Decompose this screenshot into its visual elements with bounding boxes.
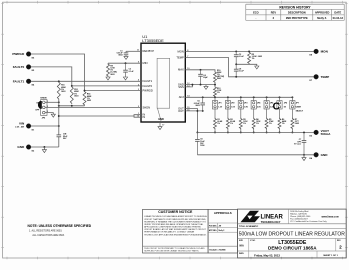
svg-text:0.1uF: 0.1uF [239,56,245,58]
resistor R5 1.00K on MON [248,51,262,64]
svg-text:1%: 1% [269,123,272,125]
wire VIN E1 to VIN column [31,125,59,127]
svg-text:ECO: ECO [253,11,259,15]
svg-text:CUSTOMER NOTICE: CUSTOMER NOTICE [158,210,193,214]
junction JP5 pin1 / VIN column [58,101,60,103]
svg-text:PWRGD: PWRGD [143,89,153,93]
terminal E6 PWRGD [12,52,35,60]
svg-text:FAULT0: FAULT0 [13,65,25,69]
svg-text:FAULT1: FAULT1 [143,79,153,83]
svg-text:IN: IN [143,115,146,119]
junction ADJ line / JP2 [227,96,229,98]
svg-text:IC NO.: IC NO. [250,240,256,242]
svg-text:PWRGD: PWRGD [12,52,25,56]
junction MON / C2 [235,50,237,52]
junction ADJ line / JP7 [291,96,293,98]
svg-text:OUT: OUT [178,109,184,113]
wire JP5 pin3 to ground [45,113,53,115]
svg-text:JP3: JP3 [244,103,247,105]
wire JP1 to resistor R1 [214,109,216,118]
ground symbol at JP5 OFF [51,114,55,117]
svg-text:1%: 1% [217,92,220,94]
terminal E2 GND input [17,145,35,153]
terminal E8 MON [309,49,328,56]
svg-text:DESCRIPTION: DESCRIPTION [288,11,306,15]
jumper JP3 1.8V output select [238,97,248,109]
wire JP2 to resistor R2 [227,109,229,118]
svg-text:CIRCUIT THAT MEETS CUSTOMER-SU: CIRCUIT THAT MEETS CUSTOMER-SUPPLIED SPE… [144,218,206,221]
resistor R3 121K divider [239,118,248,130]
svg-text:-: - [255,17,256,20]
capacitor C3 0.1uF [123,63,134,77]
svg-text:APPROVALS: APPROVALS [214,211,232,215]
terminal E1 VIN [15,122,35,132]
resistor R5 274K divider [265,118,274,130]
approvals box [208,209,237,253]
junction C4 bottom / SNS line [200,84,202,86]
resistor R10 909K (487.5K) upper divider [214,70,225,83]
svg-text:NOTE: UNLESS OTHERWISE SPECIFI: NOTE: UNLESS OTHERWISE SPECIFIED [28,224,92,228]
svg-text:'D' Case: 'D' Case [294,144,301,146]
U1 pin name labels [143,49,185,121]
svg-text:VERIFY PROPER AND RELIABLE OPE: VERIFY PROPER AND RELIABLE OPERATION IN … [144,223,204,226]
svg-text:0603: 0603 [110,74,114,76]
wire PWRGD E6 to U1 pin 3 [31,54,141,91]
capacitor C7 OPT D-case [294,132,306,154]
svg-text:1%: 1% [243,123,246,125]
svg-text:1%: 1% [256,123,259,125]
svg-text:1. ALL RESISTORS ARE 0603.: 1. ALL RESISTORS ARE 0603. [29,230,63,233]
svg-text:Milpitas, CA 95035: Milpitas, CA 95035 [290,213,308,216]
customer notice box [143,209,209,253]
jumper JP6 5V output select [277,97,287,109]
junction ADJ / C6 [202,96,204,98]
capacitor CIN 22uF 50V [57,134,69,140]
resistor R11 499K [57,81,66,100]
svg-text:TECHNOLOGY APPLICATIONS ENGINE: TECHNOLOGY APPLICATIONS ENGINEERING FOR … [144,233,207,236]
svg-text:0.1uF: 0.1uF [239,71,245,73]
junction OUT rail / R1 [214,131,216,133]
revision history table [246,4,344,20]
svg-text:REV: REV [271,11,277,15]
wire IN to U1 pins 1,16 [59,115,141,116]
junction VIN column / IN wire [58,115,60,117]
junction TEMP / C8 [235,76,237,78]
wire U1 MON pin 8 to MON terminal [185,50,313,52]
svg-text:VIN: VIN [19,122,25,126]
junction OUT rail / R5 [266,131,268,133]
junction ADJ line / JP3 [240,96,242,98]
svg-text:SELECT: SELECT [296,110,304,112]
svg-text:0603: 0603 [61,91,65,93]
wire VIN column vertical [58,100,60,135]
svg-text:JP1: JP1 [218,103,221,105]
wire U1 ADJ pin 14 to jumpers [185,96,292,98]
svg-text:USER: USER [296,107,302,109]
capacitor C1 0.01uF [117,50,129,56]
wire FAULT1 E4 to U1 pin 4 [31,80,141,82]
capacitor C8 0.1uF on TEMP [234,64,245,77]
svg-text:C: C [273,102,280,113]
wire U1 MIN pin to R8/C3 [108,62,141,64]
junction SNS merge [191,84,193,86]
svg-text:LTC Confidential-For Customer: LTC Confidential-For Customer Use Only [290,220,326,223]
svg-text:1%: 1% [230,123,233,125]
wire JP4 to resistor R4 [253,109,255,118]
svg-text:DATE:: DATE: [239,252,244,255]
svg-text:REVISION HISTORY: REVISION HISTORY [279,5,311,9]
svg-text:ADJ: ADJ [179,95,185,99]
junction VIN column / E1 wire [58,125,60,127]
svg-text:REF/BYP: REF/BYP [143,49,155,53]
svg-text:TEMP: TEMP [321,75,330,79]
svg-text:REV.: REV. [337,240,341,242]
svg-text:JP7: JP7 [296,103,299,105]
svg-text:TITLE: SCHEMATIC: TITLE: SCHEMATIC [239,225,259,228]
svg-text:CIRCUIT BOARD LAYOUT MAY SIGNI: CIRCUIT BOARD LAYOUT MAY SIGNIFICANTLY A… [144,228,206,231]
jumper JP5 3.3V output select [264,97,274,109]
svg-text:DATE: DATE [334,11,341,15]
svg-text:SUPPLIED FOR USE WITH LINEAR T: SUPPLIED FOR USE WITH LINEAR TECHNOLOGY … [144,250,199,253]
svg-text:1%: 1% [252,58,255,60]
svg-text:SHDN: SHDN [143,105,151,109]
ground symbol at C3 [123,77,127,80]
junction ADJ line / JP1 [214,96,216,98]
svg-text:500mA: 500mA [321,132,332,136]
svg-text:MON: MON [321,50,329,54]
junction OUT rail / R3 [240,131,242,133]
svg-text:Molly Z.: Molly Z. [317,16,327,20]
terminal E3 VOUT [309,129,331,138]
ground symbol at output GND rail [302,155,306,161]
svg-text:GND: GND [321,153,329,157]
size and part number cells [239,240,342,251]
svg-text:0603: 0603 [258,56,262,58]
svg-text:APP ENG.: APP ENG. [209,229,218,232]
ground symbol at C1 [124,56,128,59]
resistor R7 OPT divider [291,118,300,130]
jumper JP4 2.5V output select [251,97,261,109]
svg-text:MAX: MAX [178,68,184,72]
svg-text:MON: MON [178,49,184,53]
svg-text:GND: GND [17,145,25,149]
svg-text:APPROVED: APPROVED [315,11,330,15]
svg-text:LINEAR TECHNOLOGY HAS MADE A B: LINEAR TECHNOLOGY HAS MADE A BEST EFFORT… [144,215,207,218]
junction MAX / C4 [200,69,202,71]
junction OUT rail / R2 [227,131,229,133]
svg-text:PERFORMANCE OR RELIABILITY. C: PERFORMANCE OR RELIABILITY. CONTACT LINE… [144,231,195,234]
junction E2 wire / ground stub [43,146,45,148]
junction divider tap [214,84,216,86]
svg-text:HOWEVER, IT REMAINS THE CUSTOM: HOWEVER, IT REMAINS THE CUSTOMER'S RESPO… [144,220,206,223]
wire MON RC ground rail [236,64,257,66]
svg-text:0603: 0603 [195,105,199,107]
junction ADJ line / JP5 [266,96,268,98]
wire pullup rail to VIN column [59,105,85,107]
svg-text:N/A: N/A [240,245,245,248]
jumper JP2 1.5V output select [225,97,235,109]
svg-text:GND: GND [158,118,164,121]
junction GND rail / C7 [303,154,305,156]
svg-text:1%: 1% [282,123,285,125]
wire JP3 to resistor R3 [240,109,242,118]
svg-text:LT3055EDE: LT3055EDE [142,38,164,43]
svg-text:04-04-13: 04-04-13 [333,16,344,20]
junction ADJ line / JP6 [279,96,281,98]
wire U1 MAX pin 10 to divider [185,70,215,71]
title block [238,209,347,258]
junction FAULT1 / R11 [58,80,60,82]
svg-text:SHDN: SHDN [40,98,47,100]
svg-text:0603: 0603 [87,100,91,102]
svg-text:DEMO CIRCUIT 1865A: DEMO CIRCUIT 1865A [268,246,317,251]
wire JP5 pin2 to U1 SHDN pin 2 [45,106,141,108]
ground symbol at input GND rail [42,147,46,153]
junction OUT rail / C9 [196,131,198,133]
svg-text:FAULT1: FAULT1 [13,79,25,83]
svg-text:0603: 0603 [118,55,122,57]
svg-text:APPLICATION. COMPONENT SUBSTIT: APPLICATION. COMPONENT SUBSTITUTION AND … [144,226,201,229]
ground symbol MON RC [255,66,259,69]
svg-text:JP2: JP2 [231,103,234,105]
terminal E5 FAULT0 [13,65,35,73]
svg-text:500mA LOW DROPOUT LINEAR REGUL: 500mA LOW DROPOUT LINEAR REGULATOR [239,232,346,238]
resistor R4 191K divider [252,118,261,130]
svg-text:Molly Z.: Molly Z. [219,230,226,232]
junction ADJ line / JP4 [253,96,255,98]
svg-text:SNS: SNS [178,85,184,89]
svg-text:1630 McCarthy Blvd.: 1630 McCarthy Blvd. [290,210,309,213]
svg-text:PCB DES.: PCB DES. [209,225,218,227]
wire JP5 to resistor R5 [266,109,268,118]
wire U1 GND/SNS pins to divider tap [185,84,215,86]
ground symbol at R8 [106,77,110,80]
resistor R6 442K divider [278,118,287,130]
svg-text:0603: 0603 [74,95,78,97]
terminal E4 GND output [309,153,328,161]
capacitor C6 0.01uF ADJ to OUT [194,97,205,111]
svg-text:2.2V - 45V: 2.2V - 45V [15,126,25,129]
ground symbol at U1 GND pin [158,127,162,130]
svg-text:THIS CIRCUIT IS PROPRIETARY TO: THIS CIRCUIT IS PROPRIETARY TO LINEAR TE… [144,247,205,250]
wire JP6 to resistor R6 [279,109,281,118]
capacitor C2 0.1uF on MON [234,51,245,64]
svg-text:FAULT0: FAULT0 [143,84,153,88]
jumper JP7 USER output select [290,97,304,112]
svg-text:ALL CAPACITORS ARE 0603.: ALL CAPACITORS ARE 0603. [32,234,65,237]
wire GND E2 to CIN [31,146,59,148]
svg-text:1%: 1% [217,123,220,125]
title text [239,225,346,237]
terminal E4 FAULT1 [13,79,35,87]
junction OUT rail / C7 [303,131,305,133]
op IC U1 LT3055EDE outline [141,43,185,122]
svg-text:www.linear.com: www.linear.com [322,216,339,218]
junction OUT rail / R6 [279,131,281,133]
svg-text:0603: 0603 [295,123,299,125]
wire FAULT0 E5 to U1 pin 5 [31,67,141,86]
Linear Technology logo [241,211,284,224]
wire JP5 pin1 to pullup rail [45,101,59,103]
junction C2 bottom rail [235,63,237,65]
U1 GND pin wire [159,122,161,127]
wire U1 TEMP pin 7 to TEMP terminal [185,58,313,77]
junction rail / VIN column [58,105,60,107]
capacitor C9 10uF output [195,132,205,154]
junction MIN wire / C3 [125,62,127,64]
svg-text:TECHNOLOGY: TECHNOLOGY [261,220,281,224]
svg-text:0603: 0603 [217,78,221,80]
resistor R2 80.6K divider [226,118,235,130]
resistor R1 60.4K divider [214,118,223,130]
junction PWRGD / R14 [84,90,86,92]
wire U1 OUT pins 15,16 [185,109,197,133]
ground symbol on SNS line [204,85,208,90]
junction OUT rail / R7 [291,131,293,133]
notes text [28,224,92,237]
svg-text:TEMP: TEMP [176,56,184,60]
wire OUT rail to VOUT terminal [197,131,313,133]
svg-text:MIN: MIN [143,61,148,65]
svg-text:JP6: JP6 [284,103,287,105]
junction C6 bottom / OUT line [202,110,204,112]
junction FAULT0 / R12 [71,85,73,87]
svg-text:JW: JW [219,225,222,227]
date and sheet cells [239,252,339,257]
resistor R12 499K [70,86,79,104]
junction OUT rail / R4 [253,131,255,133]
svg-text:Friday, May 03, 2013: Friday, May 03, 2013 [254,253,280,257]
resistor R13 113K lower divider [214,86,222,97]
resistor R14 499K [83,91,92,106]
wire JP7 to resistor R7 [291,109,293,118]
svg-text:SHEET 1 OF 1: SHEET 1 OF 1 [323,255,338,257]
junction rail / R12 [71,105,73,107]
wire output GND rail [197,154,313,156]
jumper JP1 1.2V output select [212,97,222,109]
svg-text:SCALE = NONE: SCALE = NONE [209,249,226,252]
U1 pin numbers [137,50,191,127]
junction MON / R5 [248,50,250,52]
junction OUT pins merge [196,110,198,112]
resistor R8 121K (1.21M) [107,63,118,77]
svg-text:0.1uF: 0.1uF [129,71,135,73]
terminal E7 TEMP [309,75,329,83]
wire U1 REF/BYP pin 11 to C1 [126,50,141,52]
jumper JP5 SHDN select [35,98,48,120]
capacitor C4 22pF [198,70,208,85]
svg-text:2ND PROTOTYPE: 2ND PROTOTYPE [286,16,308,20]
svg-text:1206: 1206 [200,145,204,147]
